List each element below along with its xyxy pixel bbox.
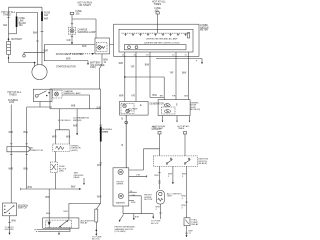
svg-text:F: F [196, 61, 198, 63]
svg-text:(J/B): (J/B) [59, 171, 64, 173]
wire diode feed column [48, 189, 50, 218]
wire bend from right column [96, 201, 100, 210]
node label Y/R right [170, 73, 174, 75]
svg-text:Y/R: Y/R [131, 67, 135, 69]
node label W/R [119, 63, 124, 65]
node relay contact circle [35, 94, 38, 97]
node dot below battery [8, 57, 9, 58]
node switch blade [6, 206, 14, 213]
svg-text:B/W: B/W [145, 65, 150, 67]
svg-text:10A: 10A [76, 12, 81, 15]
node label F [196, 61, 198, 63]
node label at arrow [71, 187, 76, 189]
svg-text:WIPER: WIPER [117, 184, 124, 186]
wire starter feeds [35, 52, 45, 66]
wire cross branch to generator 4WD [125, 77, 164, 100]
svg-text:G/R: G/R [97, 107, 101, 109]
node pointer arrowhead [92, 53, 95, 55]
svg-text:BLOCK: BLOCK [151, 223, 159, 225]
svg-text:B/W: B/W [28, 187, 33, 189]
node bottom label [92, 237, 102, 240]
wire battery negative [9, 55, 35, 63]
svg-text:4: 4 [182, 198, 184, 200]
resistor in cluster [188, 33, 190, 39]
svg-text:W/R: W/R [97, 197, 102, 199]
node arrow end [79, 188, 82, 190]
node inline connector circle [125, 121, 128, 124]
node tick [185, 232, 187, 234]
svg-text:STARTER MOTOR: STARTER MOTOR [56, 65, 76, 68]
node arrow end [9, 233, 11, 235]
charge warning lamp L1 (dashed box) [68, 28, 75, 35]
svg-text:LINK: LINK [9, 101, 15, 104]
wire switch output [9, 216, 11, 233]
wire bottom bus [123, 206, 153, 217]
combination meter box outer [114, 24, 200, 56]
wire meter drop left [59, 109, 61, 130]
svg-text:5: 5 [182, 207, 184, 209]
fuse F3 [158, 132, 161, 135]
node HOT IN RUN OR START label [78, 2, 93, 8]
wire starter output to battery junction [44, 61, 88, 64]
wire drop mid [172, 166, 174, 182]
node label G/R [97, 107, 101, 109]
svg-text:RELAY: RELAY [192, 223, 200, 226]
node relay dashed sub box [46, 220, 72, 228]
wire stub down [133, 214, 135, 219]
node arrowhead [95, 234, 97, 236]
node relay blade [38, 91, 47, 95]
svg-text:W/B: W/B [71, 105, 76, 107]
node label Y/R [131, 67, 135, 69]
node connector break on line B [36, 40, 38, 42]
node inner circle [159, 192, 162, 195]
wire drop 2 [135, 52, 137, 101]
svg-text:30A: 30A [3, 24, 8, 27]
node inline connector ticks [158, 173, 160, 184]
node FRONT WASHER text [115, 226, 136, 234]
wire relay output [39, 102, 41, 108]
node GENERATOR 4WD label [190, 102, 200, 111]
node arrowhead right [152, 217, 154, 219]
node label [182, 174, 187, 178]
svg-text:METER: METER [200, 30, 208, 32]
node label W/R lower [119, 96, 124, 98]
wiper motor box [113, 168, 129, 206]
fuse block small box [50, 162, 57, 173]
front wiper motor M2 [118, 169, 123, 174]
wire drop 1 [124, 52, 126, 101]
wire motor outputs [129, 191, 137, 193]
node label [168, 174, 173, 178]
node FL2 value labels [44, 13, 51, 21]
generator G2 box [158, 100, 190, 116]
svg-text:27: 27 [189, 233, 192, 235]
wire below connector [95, 222, 97, 234]
lamp bulb symbol [55, 92, 59, 96]
wire continues [100, 141, 102, 201]
wire drop right long [186, 166, 188, 217]
node A/C CONTROL label [167, 192, 183, 197]
svg-text:B/W: B/W [24, 132, 29, 134]
node label [135, 217, 140, 219]
svg-text:W/R: W/R [97, 165, 102, 167]
svg-text:G/R: G/R [67, 40, 71, 42]
node GENERATOR label [150, 103, 165, 106]
wire pointer dash [70, 53, 92, 55]
node tick [100, 162, 102, 164]
node label B/W [46, 197, 51, 199]
node arrowhead [172, 182, 174, 184]
node bottom label [189, 231, 193, 235]
node junction dot [124, 76, 126, 78]
svg-text:(4WD): (4WD) [71, 150, 78, 152]
node pin labels [122, 55, 188, 57]
node FR WASHER label [116, 202, 126, 205]
svg-text:Y/R: Y/R [170, 73, 174, 75]
node generator dashed sub box [121, 104, 134, 114]
node tick [159, 212, 161, 214]
unified meter control sub box [125, 45, 187, 50]
node ground arrow stub [83, 178, 85, 184]
combination meter 4WD box [50, 89, 101, 109]
node label B/W right [182, 73, 187, 75]
wire drop 5 [187, 52, 189, 100]
node 4D MODELS label [58, 120, 71, 122]
wire feed into box [125, 115, 127, 168]
node arrowhead [133, 218, 135, 220]
lamp bulb symbol [98, 46, 102, 50]
node connector tick [71, 35, 73, 37]
svg-text:12: 12 [104, 62, 107, 64]
node rotor circle [126, 109, 129, 112]
wire condenser out [159, 204, 161, 219]
node HOT AT ALL TIMES label [8, 91, 22, 97]
node label W/B [73, 126, 78, 128]
wire horizontal to relay [69, 202, 101, 204]
node zigzag [102, 47, 106, 49]
node IGNITION SWITCH label [18, 205, 29, 209]
node stub arrowheads [162, 121, 191, 123]
node E label [140, 105, 142, 107]
svg-text:B: B [122, 145, 124, 147]
node VOLTAGE REGULATOR text [128, 107, 138, 112]
svg-text:B: B [122, 119, 124, 121]
node FRONT WIPER MOTOR label [144, 195, 153, 202]
front washer motor M3 [118, 194, 123, 199]
node label B [122, 119, 124, 121]
svg-text:W/R: W/R [44, 19, 49, 21]
node tick [100, 124, 102, 126]
node junction dot at starter [34, 62, 36, 64]
svg-text:3: 3 [182, 176, 184, 178]
svg-text:W/R: W/R [82, 46, 87, 48]
wire top bus A [9, 6, 43, 8]
node rotor circle [165, 110, 171, 113]
node label [155, 175, 160, 177]
node label G/R [67, 40, 71, 42]
wire merge horizontal [9, 33, 17, 35]
svg-text:W/R: W/R [63, 211, 68, 213]
svg-text:WARNING LAMP: WARNING LAMP [78, 31, 96, 34]
node HOT IN RUN label col 1 [153, 126, 166, 130]
fuel pump resistor box [184, 218, 190, 226]
node stator coil circle [164, 104, 170, 107]
ignition relay box (switch symbol) [33, 89, 52, 101]
svg-text:E: E [176, 105, 178, 107]
node switch 2 [184, 163, 186, 165]
svg-text:OR START: OR START [79, 4, 92, 7]
node arrowhead [76, 133, 78, 135]
wire cluster supply [157, 14, 159, 24]
wire lamp internal [62, 95, 89, 109]
node arrowhead [186, 235, 188, 237]
node connector tick C1 [41, 30, 44, 32]
svg-text:B/W: B/W [46, 197, 51, 199]
node dot [96, 230, 98, 232]
node sub box circles [128, 46, 131, 49]
svg-text:2: 2 [168, 176, 170, 178]
node SEE GROUND text [74, 173, 84, 180]
svg-text:Y/L: Y/L [130, 191, 134, 193]
wire below [186, 226, 188, 236]
wire drop 4 [175, 52, 177, 100]
svg-text:TIMES: TIMES [178, 128, 185, 130]
svg-text:B/W: B/W [24, 169, 29, 171]
wire below speedo [54, 151, 56, 162]
wire right column [100, 109, 102, 127]
node label above starter output [66, 59, 71, 61]
svg-text:4D MODELS: 4D MODELS [58, 120, 71, 122]
wire lamp to bus [71, 34, 73, 44]
wire wiper switch link [129, 149, 160, 170]
node labels right long [182, 196, 187, 200]
svg-text:TIMES: TIMES [3, 14, 11, 17]
svg-text:W/R: W/R [119, 96, 124, 98]
svg-text:W/R: W/R [9, 169, 14, 171]
ignition switch S1 box [3, 203, 17, 216]
node arrowhead [87, 63, 89, 65]
svg-text:W/R: W/R [52, 137, 57, 139]
svg-text:SWITCH: SWITCH [18, 208, 27, 210]
svg-text:30A: 30A [19, 24, 24, 27]
wire ground strap [24, 44, 45, 54]
node label B/W [104, 60, 109, 64]
node zigzag inside [56, 146, 65, 149]
svg-text:UNIT: UNIT [167, 196, 173, 198]
node E label [176, 105, 178, 107]
node switch contacts [4, 205, 5, 206]
node pin ticks [10, 144, 28, 155]
node label W/R [63, 211, 68, 213]
wire battery feed [8, 34, 10, 42]
node label W/B on bus [71, 105, 76, 107]
wire L junction [55, 130, 69, 144]
node label L/W [136, 175, 141, 177]
node CL1 inner dashed [97, 43, 108, 52]
node labels [52, 137, 71, 139]
node label BATTERY ref [90, 62, 105, 70]
wire fuse line down [41, 7, 43, 64]
fuse F1 [70, 12, 74, 14]
fuse F2 [155, 8, 162, 12]
unified meter box inner [119, 29, 193, 52]
node connector tick [71, 23, 73, 25]
node INSTRUMENT CLUSTER label [56, 53, 84, 56]
svg-text:E: E [140, 105, 142, 107]
node label B/W [145, 65, 150, 67]
node start tick [20, 188, 22, 190]
node end tick [146, 175, 148, 177]
svg-text:GENERATOR: GENERATOR [150, 103, 165, 106]
fuse F4 [184, 132, 187, 135]
node switch 1 [166, 163, 168, 165]
svg-text:LINK): LINK) [90, 67, 96, 69]
node bus arrows [34, 229, 37, 232]
node label B/W on line B [33, 33, 38, 35]
node gauge symbols row [124, 33, 186, 36]
node label BATTERY [12, 38, 23, 41]
node HOT AT ALL TIMES label col 2 [178, 125, 191, 130]
accessory relay box [43, 218, 79, 228]
node labels [156, 207, 161, 211]
node bus drop arrow [58, 232, 60, 234]
svg-text:CONNECTOR: CONNECTOR [29, 150, 43, 152]
svg-text:LINK: LINK [103, 131, 108, 133]
node junction arrow [71, 42, 73, 44]
wire module output [100, 54, 103, 89]
battery BAT1 [7, 42, 11, 55]
wire feed col 2 [184, 134, 186, 156]
node HOT AT ALL TIMES label (left) [2, 11, 16, 17]
svg-text:INSTRUMENT CLUSTER: INSTRUMENT CLUSTER [56, 53, 84, 56]
node FL3 label [103, 129, 113, 133]
generator G1 box [120, 101, 149, 115]
node bottom text [5, 227, 15, 231]
svg-text:TIMES: TIMES [154, 3, 162, 6]
node arrowhead [201, 62, 203, 64]
node COMBINATION METER label [200, 25, 209, 32]
svg-text:30A: 30A [44, 14, 49, 17]
svg-text:(UNIFIED METER CONTROL UNIT): (UNIFIED METER CONTROL UNIT) [144, 42, 180, 44]
svg-text:B/W: B/W [12, 220, 17, 222]
svg-text:Y/B: Y/B [131, 195, 135, 197]
node FUSIBLE LINK label [8, 99, 18, 104]
node label B lower [122, 145, 124, 147]
node tick [185, 201, 187, 203]
svg-text:PAGE: PAGE [74, 176, 80, 179]
inline connector (slim) [95, 209, 98, 222]
node label W/R [97, 165, 102, 167]
wire ground bus lines [37, 228, 71, 231]
node label right [71, 145, 81, 152]
node label STARTER MOTOR [56, 65, 76, 68]
diode D1 [48, 218, 50, 222]
wire meter drop mid [76, 109, 78, 134]
condenser component [156, 191, 164, 205]
node CHARGE WARNING LAMP label [64, 90, 82, 95]
wire left supply [10, 105, 12, 204]
node FR WIPER label [117, 182, 125, 186]
node wire label W/R [44, 51, 49, 53]
svg-text:BATTERY: BATTERY [12, 38, 23, 41]
svg-text:RELAY: RELAY [81, 222, 89, 225]
node text block right [152, 127, 162, 131]
node switch bank label [198, 159, 208, 166]
svg-text:GROUND: GROUND [5, 229, 15, 231]
svg-text:B/W: B/W [153, 95, 158, 97]
fusible link FL3 [100, 127, 102, 142]
wire main horizontal bus [45, 43, 114, 45]
wire cluster right output [156, 59, 202, 63]
wire wiper return [129, 175, 147, 177]
node UNIFIED METER text [144, 38, 180, 45]
speedometer dashed box [53, 144, 70, 151]
svg-text:OR START: OR START [153, 127, 165, 130]
svg-text:REG: REG [128, 110, 133, 112]
svg-text:UNIFIED METER AND A/C AMP: UNIFIED METER AND A/C AMP [146, 38, 178, 41]
wire feed col 1 [159, 134, 161, 156]
wire lower bus [27, 106, 52, 108]
wire fuse block output to bus [54, 173, 56, 190]
node FL1 labels [19, 18, 27, 27]
switch bank dashed box [153, 156, 197, 167]
fusible link FL2 (right, on fuse line) [41, 12, 43, 22]
node connector label [29, 148, 43, 152]
svg-text:B/W: B/W [71, 187, 76, 189]
wire charge lamp feed [71, 19, 73, 28]
wire second column [26, 107, 28, 189]
svg-text:W/B: W/B [73, 126, 78, 128]
node zigzag [158, 198, 163, 201]
wire left feed [8, 7, 10, 34]
svg-text:WARNING LAMP: WARNING LAMP [64, 92, 82, 95]
node bottom text [151, 221, 161, 225]
svg-text:Y/R: Y/R [172, 95, 176, 97]
node relay blade [60, 221, 67, 227]
wire generator ground [125, 115, 127, 168]
wire internal dashed row [122, 32, 191, 34]
svg-text:2: 2 [156, 209, 158, 211]
node inner dashed sub box [52, 90, 62, 98]
svg-text:(BLADE): (BLADE) [198, 162, 207, 165]
node L1 labels [78, 29, 96, 34]
wire horizontal to accessory [21, 188, 79, 190]
wire drop left [159, 166, 161, 189]
node stubs from connector box [163, 116, 190, 121]
wire from fuse [72, 15, 96, 38]
node label B/W [24, 132, 29, 134]
node relay label [81, 219, 95, 224]
node label W/R on bus [82, 46, 87, 48]
node junction dot [8, 38, 10, 40]
node stator coil circle [123, 104, 126, 107]
svg-text:TIMES: TIMES [9, 93, 17, 96]
node label B/W lower [46, 213, 51, 215]
wire drop 3 (jog right) [150, 52, 164, 98]
node relay feed corner [68, 203, 70, 218]
svg-text:B/W: B/W [131, 202, 136, 204]
fusible link FL1 (on line B) [16, 17, 18, 28]
node text block below generator left [99, 129, 109, 133]
bulkhead connector SMJ (banner shape) [7, 146, 31, 151]
node output labels [130, 191, 137, 204]
node label BR [160, 95, 163, 97]
starter motor M1 [32, 64, 47, 79]
svg-text:(COLUMN): (COLUMN) [115, 231, 126, 233]
svg-text:BR: BR [160, 95, 163, 97]
svg-text:W/R: W/R [119, 63, 124, 65]
